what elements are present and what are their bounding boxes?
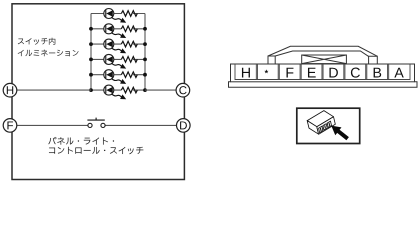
- resistor: [121, 26, 137, 32]
- terminal D: [177, 119, 191, 133]
- junction: [143, 27, 147, 31]
- pin cells: [235, 64, 410, 80]
- resistor: [121, 41, 137, 47]
- pin A: [394, 68, 403, 78]
- wire: [91, 28, 145, 30]
- terminal C: [176, 83, 190, 97]
- junction: [143, 73, 147, 77]
- resistor: [121, 11, 137, 17]
- pin B: [374, 68, 382, 78]
- LED lamp: [104, 24, 114, 34]
- label: panel light control switch (line 1): [48, 137, 114, 145]
- connector latch housing inner edge: [275, 51, 368, 56]
- LED lamp: [104, 85, 114, 95]
- LED light arrow: [111, 78, 121, 81]
- latch center lock box with cross: [302, 55, 347, 64]
- label: switch internal illumination (line 1): [18, 38, 55, 45]
- 3D connector sketch: [307, 111, 335, 135]
- LED light arrow: [111, 94, 121, 97]
- panel light control switch assembly box: [12, 4, 184, 180]
- wire switch to D: [105, 124, 176, 126]
- wire: [91, 13, 145, 15]
- LED lamp: [104, 39, 114, 49]
- resistor: [121, 87, 137, 93]
- LED light arrow: [111, 17, 121, 20]
- junction: [143, 42, 147, 46]
- junction: [89, 27, 93, 31]
- wire H to ladder: [17, 89, 91, 91]
- location arrow: [331, 126, 349, 141]
- pin * (star): [264, 69, 268, 73]
- connector pin row housing: [231, 64, 415, 82]
- junction: [89, 88, 93, 92]
- connector latch housing outer edge: [268, 46, 377, 56]
- LED light arrow: [111, 48, 121, 51]
- wire: [91, 43, 145, 45]
- connector location icon box: [297, 108, 360, 143]
- LED light arrow: [111, 63, 121, 66]
- wire: [91, 89, 145, 91]
- switch SW1 (panel light control): [88, 123, 92, 127]
- LED light arrow: [111, 32, 121, 35]
- resistor: [121, 72, 137, 78]
- LED lamp: [104, 9, 114, 19]
- label: panel light control switch (line 2): [49, 147, 143, 154]
- wire right rail: [144, 14, 146, 91]
- latch right foot: [369, 56, 378, 64]
- junction: [89, 58, 93, 62]
- wire left rail: [90, 14, 92, 91]
- junction: [89, 42, 93, 46]
- LED lamp: [104, 54, 114, 64]
- pin F: [287, 68, 294, 78]
- wire: [91, 74, 145, 76]
- terminal H: [3, 83, 17, 97]
- LED lamp: [104, 70, 114, 80]
- resistor: [121, 57, 137, 63]
- connector base flange: [229, 82, 418, 88]
- pin E: [308, 68, 316, 78]
- junction: [89, 73, 93, 77]
- wire: [91, 58, 145, 60]
- pin H: [242, 68, 250, 78]
- pin D: [329, 68, 337, 78]
- junction: [143, 58, 147, 62]
- terminal F: [3, 119, 17, 133]
- junction: [143, 88, 147, 92]
- wire F to switch: [17, 124, 88, 126]
- wire ladder to C: [145, 89, 176, 91]
- pin C: [351, 68, 360, 78]
- label: switch internal illumination (line 2): [18, 50, 79, 57]
- latch left foot: [268, 56, 275, 64]
